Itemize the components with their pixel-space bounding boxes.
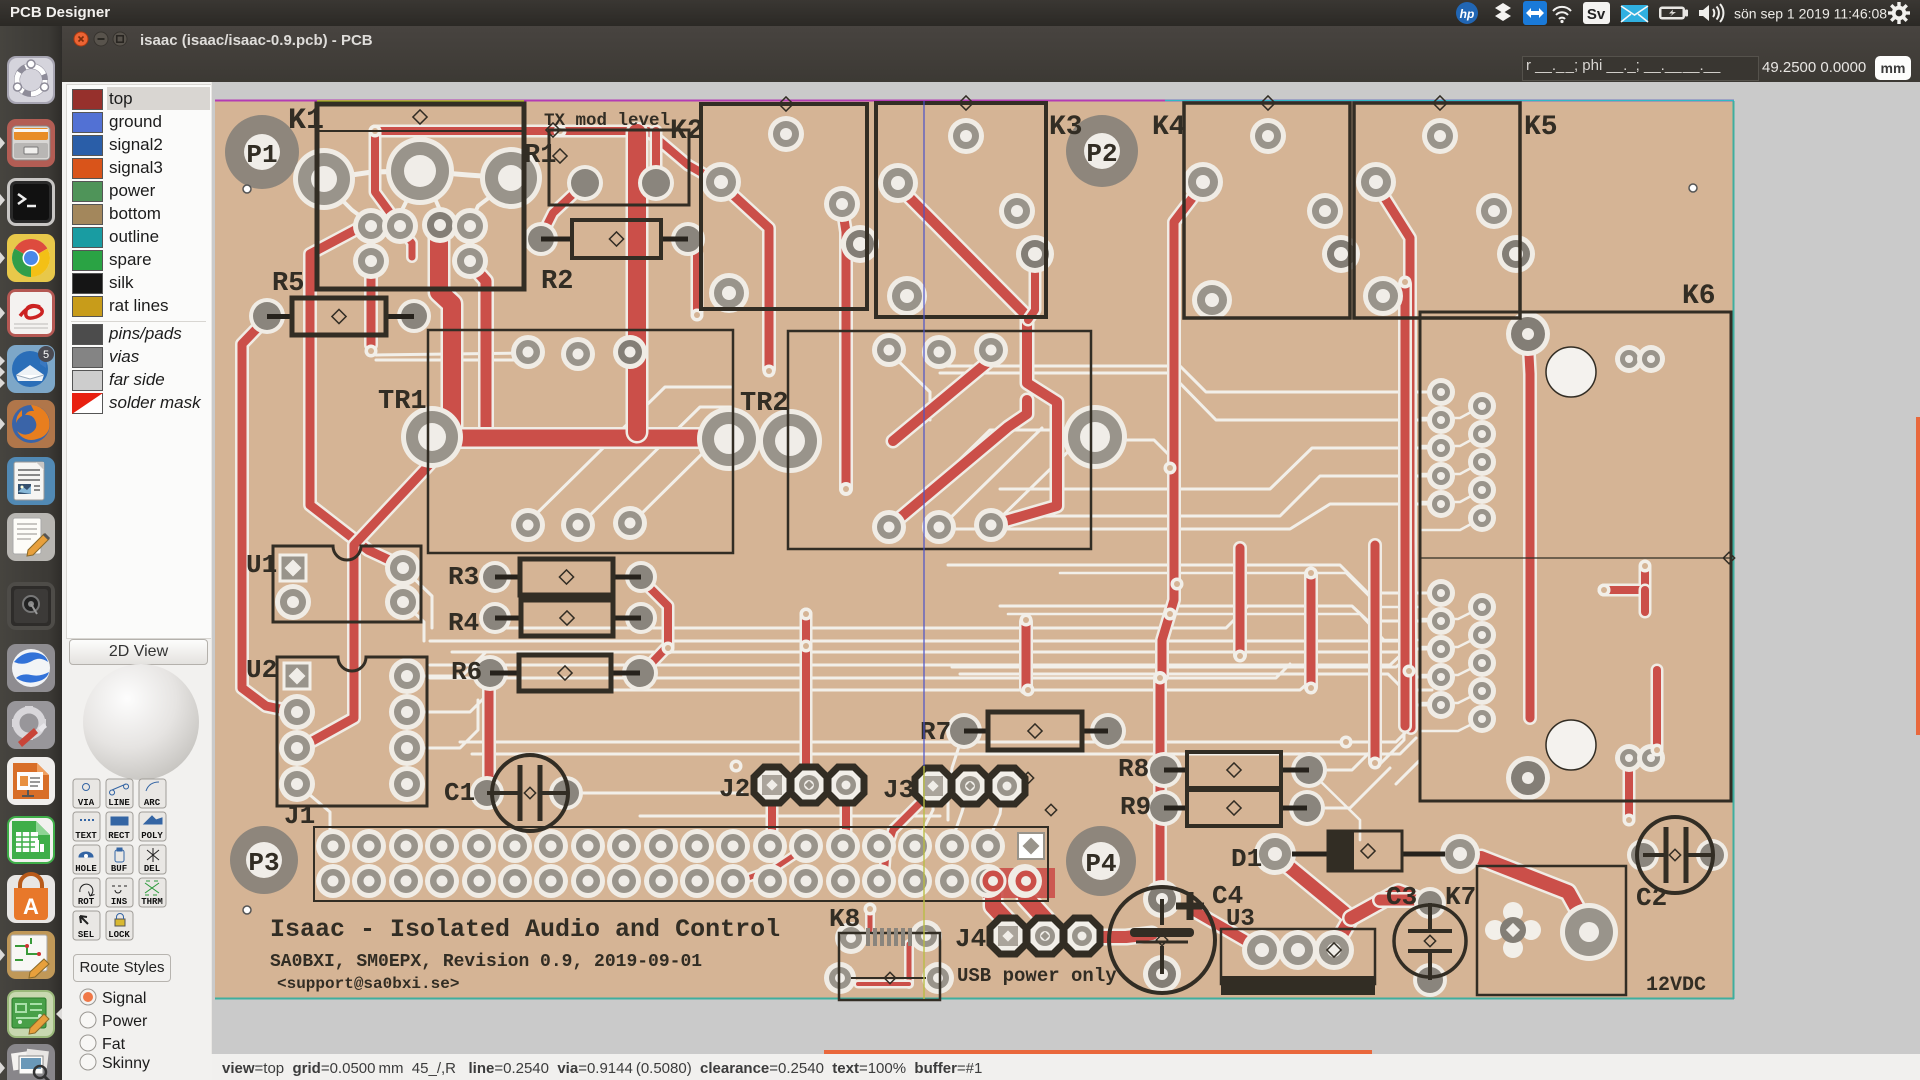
K2 pads bbox=[701, 116, 879, 313]
svg-text:HOLE: HOLE bbox=[75, 864, 97, 874]
horizontal scrollbar thumb bbox=[824, 1050, 1372, 1054]
svg-text:P1: P1 bbox=[246, 140, 277, 170]
R9 pads bbox=[1146, 790, 1325, 826]
wire K2 right drop bbox=[842, 206, 846, 487]
svg-text:THRM: THRM bbox=[141, 897, 163, 907]
board substrate bbox=[215, 101, 1734, 999]
svg-text:P2: P2 bbox=[1086, 139, 1117, 169]
email text bbox=[277, 975, 459, 993]
K1 big pads bbox=[293, 137, 542, 210]
svg-text:J3: J3 bbox=[883, 775, 914, 805]
svg-text:U1: U1 bbox=[246, 550, 277, 580]
relay K8 bbox=[829, 904, 940, 1000]
C1 pads bbox=[470, 776, 583, 810]
svg-text:P4: P4 bbox=[1085, 849, 1116, 879]
label J4 bbox=[955, 924, 986, 954]
capacitor C2 bbox=[1636, 817, 1713, 913]
wire K5 left drop bbox=[1376, 184, 1411, 728]
wire K1 small nub bbox=[401, 229, 412, 257]
crosshair cursor line bbox=[923, 101, 925, 999]
svg-text:R7: R7 bbox=[920, 717, 951, 747]
wire K6 inner rail bbox=[1528, 336, 1530, 718]
mounting hole P4 bbox=[1066, 826, 1136, 896]
wire via1375 bbox=[1368, 545, 1382, 762]
board outline top cyan segment bbox=[1165, 100, 1734, 102]
wire K1 top rail bbox=[375, 131, 718, 182]
wire C1 to R6 bbox=[482, 675, 496, 791]
TR2 pins bbox=[872, 333, 1008, 544]
wire via1160 to C4 bbox=[1153, 678, 1167, 897]
mounting hole P3 bbox=[230, 826, 298, 914]
label USB power only bbox=[957, 965, 1117, 987]
resistor R4 bbox=[448, 600, 641, 638]
capacitor C1 bbox=[444, 755, 568, 831]
K7 pads bbox=[1485, 902, 1618, 961]
wire TR1 bar bbox=[452, 427, 718, 449]
svg-text:R4: R4 bbox=[448, 608, 479, 638]
svg-text:R5: R5 bbox=[272, 269, 304, 299]
connector J4 bbox=[990, 918, 1100, 954]
svg-text:K3: K3 bbox=[1049, 112, 1083, 143]
svg-text:R2: R2 bbox=[541, 267, 573, 297]
board outline right+bottom (teal) bbox=[215, 101, 1734, 999]
capacitor C4 bbox=[1109, 881, 1243, 993]
K4 pads bbox=[1183, 118, 1360, 320]
transformer TR2 bbox=[740, 331, 1091, 549]
wire K8 inner v bbox=[904, 944, 914, 984]
resistor R9 bbox=[1120, 790, 1307, 826]
wire R1 to R2 bbox=[650, 131, 663, 181]
wire J1 inner link bbox=[740, 846, 808, 881]
svg-text:TR1: TR1 bbox=[378, 387, 427, 417]
svg-text:<support@sa0bxi.se>: <support@sa0bxi.se> bbox=[277, 975, 459, 993]
wire R5 to U2 bbox=[242, 318, 295, 712]
svg-text:J1: J1 bbox=[284, 801, 315, 831]
connector J3 bbox=[915, 768, 1025, 804]
left panel bbox=[62, 82, 212, 1080]
R1 pads bbox=[567, 165, 674, 201]
K5 pads bbox=[1356, 118, 1535, 316]
preview sphere bbox=[83, 664, 199, 780]
K8 pads bbox=[824, 920, 954, 994]
svg-text:SEL: SEL bbox=[78, 930, 94, 940]
wire J2 mid riser bbox=[800, 614, 813, 782]
wire J4 to C4 bbox=[1080, 934, 1152, 937]
wire R1-R2 link bbox=[541, 183, 585, 237]
wire K1 pad6 down bbox=[364, 263, 378, 345]
label J2 bbox=[719, 774, 750, 804]
svg-text:C2: C2 bbox=[1636, 883, 1667, 913]
stray dot marker bbox=[1689, 184, 1697, 192]
route styles bbox=[73, 954, 171, 982]
D1 pads bbox=[1254, 833, 1480, 875]
svg-text:K1: K1 bbox=[288, 104, 324, 138]
title text bbox=[270, 915, 780, 944]
svg-text:C3: C3 bbox=[1386, 882, 1417, 912]
svg-text:K8: K8 bbox=[829, 904, 860, 934]
wire K6 elbow bbox=[1604, 568, 1645, 590]
svg-text:INS: INS bbox=[111, 897, 128, 907]
capacitor C3 bbox=[1386, 882, 1466, 980]
wire K6 stub3 bbox=[1623, 770, 1636, 818]
wire K3 pad4 down bbox=[1028, 256, 1035, 320]
wire K3 diag down bbox=[898, 186, 1057, 524]
svg-text:Signal: Signal bbox=[102, 990, 146, 1007]
U2 pads bbox=[279, 658, 425, 802]
TR1 big pad bbox=[401, 406, 463, 468]
svg-text:J2: J2 bbox=[719, 774, 750, 804]
wire TR2 to via bbox=[839, 482, 853, 496]
vertical scrollbar thumb bbox=[1916, 417, 1920, 735]
2D View button bbox=[69, 639, 208, 665]
svg-text:sön sep 1 2019 11:46:08: sön sep 1 2019 11:46:08 bbox=[1734, 6, 1887, 22]
mounting hole P1 bbox=[225, 115, 299, 193]
svg-text:J4: J4 bbox=[955, 924, 986, 954]
R8 pads bbox=[1146, 752, 1327, 788]
svg-text:5: 5 bbox=[43, 349, 49, 361]
ic U2 bbox=[246, 655, 427, 806]
svg-text:USB power only: USB power only bbox=[957, 965, 1117, 987]
wire R3 to R6 bbox=[641, 579, 668, 671]
svg-text:R6: R6 bbox=[451, 657, 482, 687]
label J3 bbox=[883, 775, 914, 805]
svg-text:POLY: POLY bbox=[141, 831, 163, 841]
wire U2 riser bbox=[300, 464, 430, 748]
TR1 TR2 big pads bbox=[697, 405, 1127, 473]
relay K3 bbox=[876, 96, 1083, 317]
wire J2 pad1 drop bbox=[766, 787, 779, 844]
svg-text:D1: D1 bbox=[1231, 844, 1262, 874]
wire D1 Y right bbox=[1351, 892, 1428, 918]
svg-text:C1: C1 bbox=[444, 778, 475, 808]
svg-text:R9: R9 bbox=[1120, 792, 1151, 822]
svg-text:TEXT: TEXT bbox=[75, 831, 97, 841]
wire K7 diag bbox=[1481, 858, 1589, 930]
wire K6 left rail bbox=[1398, 284, 1412, 726]
TR1 pins bbox=[511, 335, 647, 542]
svg-text:DEL: DEL bbox=[144, 864, 160, 874]
svg-text:SA0BXI, SM0EPX, Revision 0.9,: SA0BXI, SM0EPX, Revision 0.9, 2019-09-01 bbox=[270, 952, 702, 972]
R2 pads bbox=[524, 222, 705, 256]
panel/canvas divider bbox=[211, 82, 215, 1054]
svg-text:Power: Power bbox=[102, 1013, 148, 1030]
wire K8 inner h bbox=[858, 980, 909, 989]
svg-text:K5: K5 bbox=[1524, 112, 1558, 143]
svg-text:K7: K7 bbox=[1445, 882, 1476, 912]
svg-text:LOCK: LOCK bbox=[108, 930, 130, 940]
subtitle text bbox=[270, 952, 702, 972]
diamond markers bbox=[553, 149, 1057, 816]
connector J2 bbox=[754, 767, 864, 803]
wire node under K3 bbox=[1019, 622, 1033, 688]
label 12VDC bbox=[1646, 974, 1706, 997]
resistor R3 bbox=[448, 559, 641, 595]
wire D1 Y left bbox=[1276, 856, 1351, 948]
wire C3 K7 link bbox=[1380, 892, 1423, 908]
label TX mod level bbox=[544, 111, 670, 131]
diode D1 bbox=[1231, 831, 1445, 874]
svg-text:R8: R8 bbox=[1118, 754, 1149, 784]
tool buttons bbox=[62, 81, 212, 83]
svg-text:RECT: RECT bbox=[108, 831, 130, 841]
wire J1 to J4 a bbox=[993, 878, 1008, 936]
wire K1 pad drop2 bbox=[470, 263, 486, 432]
svg-text:TX mod level: TX mod level bbox=[544, 111, 670, 131]
svg-text:Sv: Sv bbox=[1587, 6, 1606, 23]
wire J3 diag bbox=[884, 790, 933, 878]
Ubuntu top panel bbox=[0, 0, 1920, 26]
K3 pads bbox=[878, 118, 1054, 316]
resistor R6 bbox=[451, 655, 640, 691]
connector K7 bbox=[1445, 866, 1626, 995]
svg-text:ARC: ARC bbox=[144, 798, 161, 808]
svg-text:LINE: LINE bbox=[108, 798, 130, 808]
K1 small pads bbox=[353, 207, 488, 279]
status bar bbox=[212, 1054, 1920, 1080]
svg-text:12VDC: 12VDC bbox=[1646, 974, 1706, 997]
svg-text:K4: K4 bbox=[1152, 112, 1186, 143]
resistor R5 bbox=[267, 269, 414, 335]
Unity launcher bbox=[0, 26, 62, 1080]
svg-text:Skinny: Skinny bbox=[102, 1055, 150, 1072]
relay K1 bbox=[288, 104, 524, 289]
svg-text:U3: U3 bbox=[1226, 906, 1255, 933]
wire J2 pad3 drop bbox=[840, 789, 853, 842]
resistor R8 bbox=[1118, 752, 1309, 788]
svg-text:R3: R3 bbox=[448, 562, 479, 592]
wire J1 to J4 b bbox=[1026, 878, 1046, 934]
mounting hole P2 bbox=[1066, 115, 1138, 187]
wire white traces bbox=[376, 353, 528, 355]
wire TR2 diag1 bbox=[893, 352, 1000, 441]
wire K2 left drop bbox=[721, 184, 769, 369]
svg-text:K6: K6 bbox=[1682, 281, 1716, 312]
wire K1 pad2 drop bbox=[375, 131, 397, 222]
J1 red pads bbox=[981, 869, 1038, 893]
K6 pads bbox=[1427, 312, 1665, 800]
relay K4 bbox=[1152, 96, 1350, 318]
transformer TR1 bbox=[378, 330, 733, 553]
wire TR2 diag2 bbox=[889, 400, 1027, 527]
R6 pads bbox=[472, 655, 658, 691]
wire via1311 bbox=[1304, 574, 1318, 687]
C2 pads bbox=[1627, 839, 1728, 871]
J1 pads bbox=[316, 829, 1044, 898]
C3 pads bbox=[1413, 887, 1447, 997]
board outline top (magenta) bbox=[215, 100, 1734, 102]
svg-text:U2: U2 bbox=[246, 655, 277, 685]
svg-text:P3: P3 bbox=[248, 848, 279, 878]
connector J1 bbox=[284, 801, 1048, 901]
svg-text:TR2: TR2 bbox=[740, 389, 789, 419]
wire K6 stub2 bbox=[1651, 670, 1664, 748]
svg-text:R1: R1 bbox=[524, 141, 556, 171]
ic U1 bbox=[246, 546, 421, 622]
R4 pads bbox=[479, 602, 657, 634]
wire thick under R2 bbox=[626, 133, 649, 432]
vias bbox=[365, 125, 1664, 916]
wire K4 left drop bbox=[1162, 184, 1203, 676]
wire C4 to U3 bbox=[1196, 912, 1262, 950]
U1 pads bbox=[275, 550, 421, 620]
silk green segment over K1 bbox=[317, 100, 524, 103]
svg-text:ROT: ROT bbox=[78, 897, 95, 907]
R7 pads bbox=[946, 713, 1126, 749]
svg-text:VIA: VIA bbox=[78, 798, 95, 808]
relay K2 bbox=[670, 97, 867, 309]
potentiometer R1 bbox=[524, 123, 689, 205]
resistor R2 bbox=[541, 220, 688, 297]
connector K6 bbox=[1420, 281, 1735, 801]
svg-text:A: A bbox=[23, 894, 39, 919]
svg-text:BUF: BUF bbox=[111, 864, 127, 874]
wire TR2b to via bbox=[1233, 548, 1247, 655]
resistor R7 bbox=[920, 712, 1108, 750]
wire K6 stub1 bbox=[1639, 590, 1652, 612]
R3 pads bbox=[479, 561, 657, 593]
red patch J1-J4 bbox=[983, 868, 1055, 898]
window title bar bbox=[62, 26, 1920, 83]
wire K1 to U1 bbox=[310, 229, 400, 565]
C4 pads bbox=[1143, 880, 1181, 993]
relay K5 bbox=[1354, 96, 1558, 318]
svg-text:Isaac - Isolated Audio and C: Isaac - Isolated Audio and Control bbox=[270, 915, 780, 944]
wire R2 right drop bbox=[688, 235, 697, 312]
regulator U3 bbox=[1221, 906, 1375, 995]
R5 pads bbox=[249, 298, 431, 334]
svg-text:hp: hp bbox=[1460, 7, 1475, 21]
wire thick K1 down bbox=[439, 228, 452, 432]
wire K8 pad stub bbox=[865, 912, 875, 930]
